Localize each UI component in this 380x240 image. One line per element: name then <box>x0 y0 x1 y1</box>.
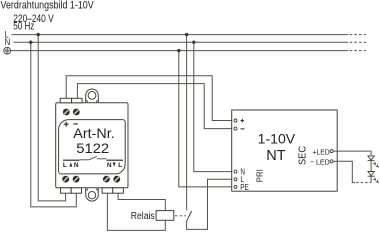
wire dimmer output terminal to relay coil top <box>118 193 165 210</box>
svg-text:Art-Nr.: Art-Nr. <box>73 126 114 142</box>
terminal block bottom 3 <box>102 188 113 193</box>
wire N bus dashed continuation <box>350 41 367 43</box>
wire L drop to relay switch top contact <box>186 35 188 211</box>
dimmer marking arrow up <box>69 162 72 166</box>
svg-text:N: N <box>74 162 79 169</box>
svg-text:NT: NT <box>266 148 286 164</box>
NT power supply box <box>232 110 338 191</box>
svg-text:5122: 5122 <box>76 141 109 157</box>
screw terminal bottom N2 <box>103 176 110 183</box>
wire dimmer plus terminal to NT plus pin <box>66 76 234 121</box>
svg-text:PE: PE <box>240 183 249 192</box>
dimmer inner panel <box>59 120 126 174</box>
plus mark dimmer <box>64 122 69 127</box>
screw terminal bottom L <box>62 176 69 183</box>
svg-text:SEC: SEC <box>297 146 309 165</box>
junction dot L left <box>37 33 40 36</box>
svg-text:− LED: − LED <box>310 157 330 166</box>
relay mechanical link dashed <box>175 215 186 217</box>
svg-text:Verdrahtungsbild 1-10V: Verdrahtungsbild 1-10V <box>1 0 95 12</box>
wire +LED to LED chain <box>337 151 371 156</box>
NT pin +LED wire stub <box>333 150 337 152</box>
relay switch blade <box>187 211 192 221</box>
LED D2 emission arrows <box>373 178 378 183</box>
wire between LED D1 and D2 <box>370 161 372 172</box>
LED chain wires <box>337 151 371 183</box>
NT pin -LED wire stub <box>333 160 337 162</box>
NT pin -LED <box>330 160 333 163</box>
mounting ear bottom <box>86 188 99 201</box>
screw terminal top-left <box>63 109 70 116</box>
junction dot L right <box>185 33 188 36</box>
wire PE bus <box>10 50 348 52</box>
junction dot N right <box>192 41 195 44</box>
wire dimmer minus terminal to NT minus pin <box>77 84 234 129</box>
NT pin PE <box>234 185 237 188</box>
svg-text:PRI: PRI <box>255 169 265 182</box>
svg-text:Relais: Relais <box>131 211 155 222</box>
wire L bus dashed continuation <box>350 34 367 36</box>
wire switch bottom to NT L pin <box>187 179 234 229</box>
terminal block top 2 <box>72 98 83 103</box>
wire left N drop to dimmer bottom N terminal <box>31 42 77 207</box>
screw terminal bottom N1 <box>73 176 80 183</box>
dimmer terminal marking N down L <box>107 162 122 169</box>
dimmer terminal marking L up N <box>63 162 79 169</box>
NT pin L <box>234 178 237 181</box>
NT pin +LED <box>330 150 333 153</box>
dimmer marking arrow down <box>113 163 116 167</box>
mounting ear top <box>86 89 99 102</box>
NT pin label plus <box>241 119 245 123</box>
ground symbol PE <box>4 47 11 54</box>
wire dashed LED continuation <box>356 182 371 184</box>
screw terminal bottom L2 <box>113 176 120 183</box>
wire relay coil bottom return to dimmer terminal <box>107 193 165 230</box>
terminal block bottom 2 <box>71 188 81 193</box>
screw terminal top-right <box>73 109 80 116</box>
svg-text:1-10V: 1-10V <box>258 130 296 146</box>
LED D2 <box>368 172 375 177</box>
LED D1 emission arrows <box>373 162 378 167</box>
terminal block bottom 4 <box>113 188 124 193</box>
svg-text:50 Hz: 50 Hz <box>13 21 34 33</box>
junction dot PE right <box>177 49 180 52</box>
dimmer module box <box>56 98 128 193</box>
LED D1 <box>368 156 375 161</box>
minus mark dimmer <box>73 123 77 125</box>
NT pin plus <box>234 119 237 122</box>
dimmer terminal marking overline right <box>107 159 123 161</box>
terminal block bottom 1 <box>61 188 72 193</box>
terminal block top 1 <box>60 98 71 103</box>
wire left L drop to dimmer bottom L terminal <box>38 35 65 201</box>
wire below LED D2 <box>370 176 372 182</box>
svg-text:L: L <box>63 162 67 169</box>
svg-text:L: L <box>118 162 122 169</box>
wire N bus <box>14 41 349 43</box>
wire N drop to NT N pin <box>194 42 234 171</box>
wire PE bus dashed continuation <box>350 50 367 52</box>
NT pin minus <box>234 127 237 130</box>
svg-text:N: N <box>107 162 112 169</box>
NT pin N <box>234 170 237 173</box>
wire PE drop to NT PE pin <box>179 51 234 187</box>
dimmer internal switch glyph <box>79 157 106 160</box>
NT pin label minus <box>241 128 245 130</box>
dimmer terminal marking overline left <box>63 159 79 161</box>
relay coil box <box>156 211 174 221</box>
svg-text:+LED: +LED <box>313 147 331 156</box>
svg-text:N: N <box>5 37 11 47</box>
wire -LED return <box>337 161 355 182</box>
wire L bus <box>12 34 349 36</box>
junction dot N left <box>29 41 32 44</box>
